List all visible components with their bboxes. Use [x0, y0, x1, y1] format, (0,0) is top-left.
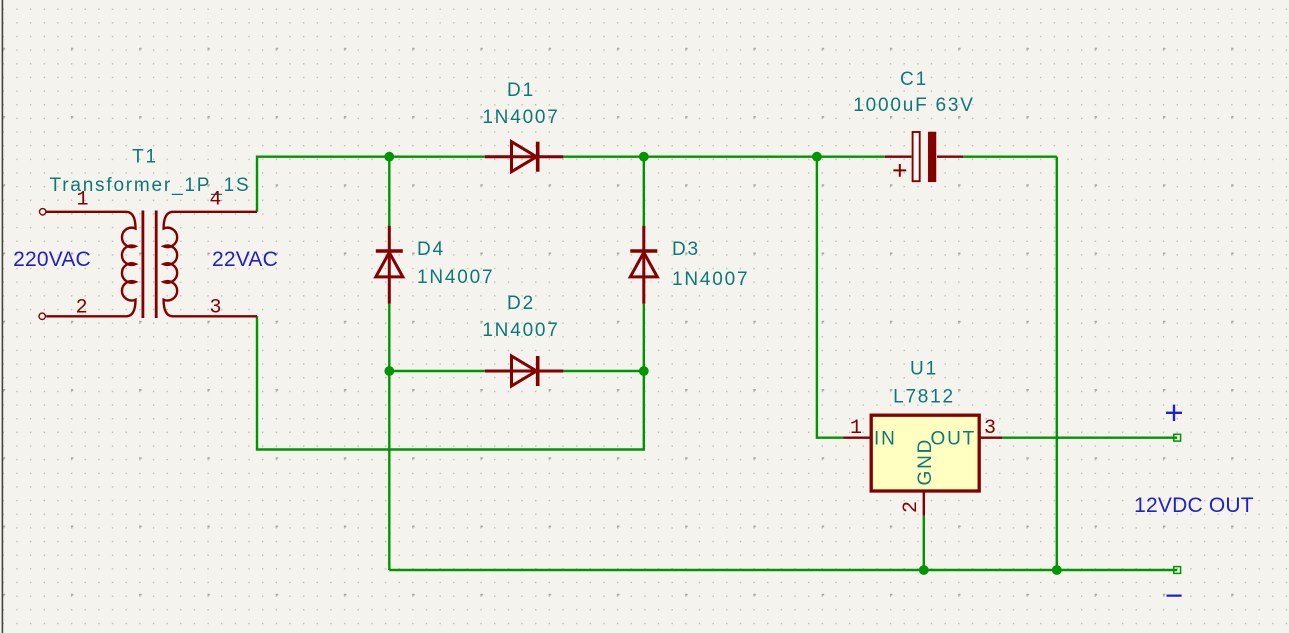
- svg-text:−: −: [1165, 578, 1183, 613]
- diode D2: [485, 356, 564, 386]
- svg-text:D4: D4: [417, 239, 445, 260]
- svg-text:2: 2: [900, 501, 923, 513]
- junction D1 right: [639, 152, 649, 162]
- svg-text:U1: U1: [910, 359, 938, 380]
- svg-text:2: 2: [76, 297, 88, 320]
- transformer pin 2 wire: [46, 315, 126, 317]
- junction D2 left: [384, 366, 394, 376]
- junction C1 positive: [812, 152, 822, 162]
- transformer secondary winding: [164, 212, 178, 316]
- transformer pin 4 wire: [173, 211, 258, 213]
- wire U1 GND pin down to rail: [923, 516, 925, 570]
- transformer core: [141, 211, 144, 319]
- svg-text:4: 4: [209, 189, 221, 212]
- svg-text:3: 3: [209, 297, 221, 320]
- svg-text:22VAC: 22VAC: [212, 248, 278, 271]
- wire U1 OUT to + terminal: [1002, 437, 1177, 439]
- capacitor C1 pin right: [937, 155, 963, 157]
- svg-text:D2: D2: [507, 293, 535, 314]
- sheet border left: [2, 0, 4, 633]
- wire C1 negative column down to ground rail: [1056, 157, 1058, 570]
- wire left bridge column through D4: [388, 157, 390, 226]
- svg-text:+: +: [1164, 394, 1183, 431]
- svg-text:IN: IN: [874, 428, 897, 449]
- capacitor C1 plus sign: [893, 164, 906, 177]
- wire top bus from transformer pin4 up and right to D1: [257, 157, 485, 212]
- svg-text:1N4007: 1N4007: [672, 269, 749, 290]
- wire transformer pin3 to bridge: [257, 316, 644, 449]
- junction C1 negative on rail: [1052, 565, 1062, 575]
- capacitor C1 left plate (hollow): [913, 132, 920, 181]
- U1 pin 3 stub: [979, 437, 1002, 439]
- capacitor C1 pin left: [885, 155, 912, 157]
- terminal square + output: [1174, 434, 1181, 441]
- transformer pin 2 open circle: [39, 313, 45, 319]
- wire D1 cathode to C1: [563, 155, 884, 157]
- wire D2 row: [389, 370, 485, 372]
- diode D1: [485, 142, 564, 172]
- junction U1 GND on rail: [919, 565, 929, 575]
- op-amp U1 body: [871, 415, 979, 491]
- wire C1 positive down to U1 IN: [817, 157, 844, 438]
- svg-text:T1: T1: [132, 147, 158, 168]
- junction D1 left: [384, 152, 394, 162]
- wire ground rail: [389, 569, 1177, 571]
- terminal square - output: [1174, 567, 1181, 574]
- svg-text:1000uF 63V: 1000uF 63V: [853, 95, 975, 116]
- svg-text:1N4007: 1N4007: [482, 107, 559, 128]
- svg-text:1N4007: 1N4007: [482, 320, 559, 341]
- transformer pin 3 wire: [173, 315, 258, 317]
- diode D3: [630, 226, 657, 304]
- U1 pin 1 stub: [844, 437, 872, 439]
- svg-text:1: 1: [76, 189, 88, 212]
- svg-text:D1: D1: [507, 80, 535, 101]
- svg-text:12VDC OUT: 12VDC OUT: [1134, 494, 1254, 517]
- transformer pin 1 open circle: [40, 209, 46, 215]
- transformer primary winding: [122, 212, 136, 316]
- capacitor C1 right plate (filled): [928, 132, 936, 182]
- wire right bridge column through D3: [643, 157, 645, 226]
- diode D4: [376, 226, 403, 304]
- svg-text:D3: D3: [672, 239, 700, 260]
- svg-text:C1: C1: [900, 69, 928, 90]
- svg-text:GND: GND: [915, 438, 936, 486]
- transformer pin 1 wire: [46, 211, 126, 213]
- svg-text:L7812: L7812: [893, 387, 955, 408]
- svg-text:1N4007: 1N4007: [417, 267, 494, 288]
- svg-text:OUT: OUT: [930, 428, 976, 449]
- junction D2 right: [639, 366, 649, 376]
- wire C1 right to negative column: [963, 155, 1057, 157]
- svg-text:3: 3: [984, 417, 996, 440]
- svg-text:1: 1: [850, 417, 862, 440]
- U1 pin 2 stub: [923, 491, 925, 516]
- svg-text:220VAC: 220VAC: [13, 248, 91, 271]
